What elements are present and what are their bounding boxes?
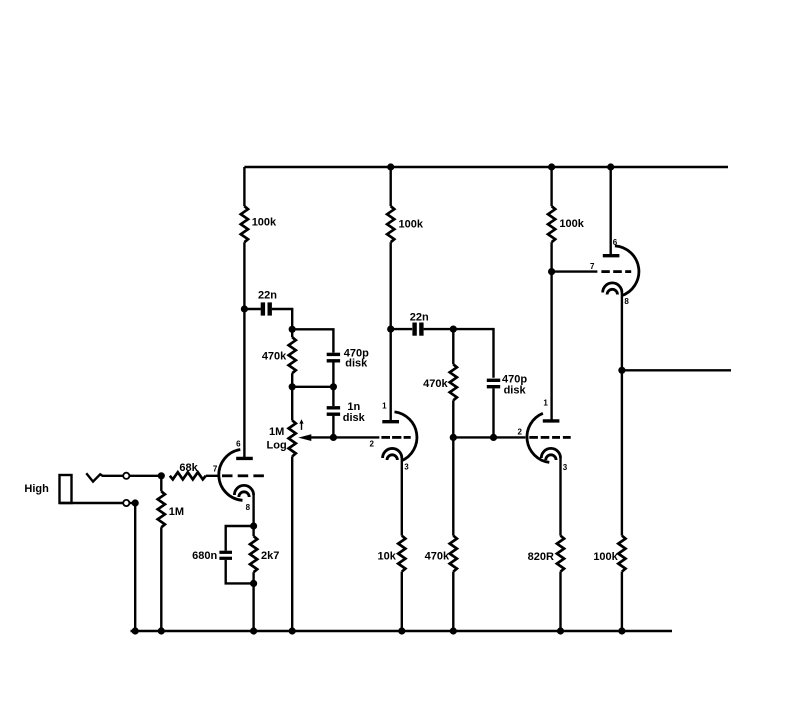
pin 8 label (V4) bbox=[624, 297, 629, 306]
wire: R9 bottom to V3 plate (pin 1) bbox=[550, 242, 552, 421]
svg-text:470k: 470k bbox=[262, 351, 287, 363]
svg-text:disk: disk bbox=[343, 412, 366, 424]
pin 2 label (V3) bbox=[517, 428, 522, 437]
capacitor C3 1n disk bbox=[327, 387, 366, 438]
svg-text:22n: 22n bbox=[410, 312, 429, 324]
svg-text:2: 2 bbox=[517, 428, 522, 437]
wire: tip terminal to grid node bbox=[130, 475, 162, 477]
node: ground junction (R12) bbox=[618, 627, 625, 634]
triode V2 cathode (pin 3) bbox=[383, 448, 402, 460]
svg-text:1n: 1n bbox=[347, 401, 360, 413]
node: C5 bottom junction bbox=[490, 434, 497, 441]
wire: C6 bottom to R7 bbox=[226, 560, 254, 584]
svg-text:470k: 470k bbox=[425, 550, 450, 562]
capacitor C2 470p disk bbox=[327, 348, 369, 370]
node: rail junction to V4 plate bbox=[607, 163, 614, 170]
svg-text:7: 7 bbox=[213, 465, 218, 474]
pin 7 label (V4) bbox=[590, 262, 595, 271]
resistor R12 100k (V4 cathode load) bbox=[593, 536, 625, 631]
wire: B+ supply rail (top) bbox=[244, 166, 728, 168]
pin 1 label (V2) bbox=[382, 402, 387, 411]
svg-text:820R: 820R bbox=[528, 551, 554, 563]
triode V2 grid (pin 2, dashed) bbox=[381, 436, 410, 439]
resistor R6 470k bbox=[423, 329, 457, 437]
capacitor C6 680n bbox=[192, 550, 232, 562]
triode V3 grid (pin 2, dashed) bbox=[529, 436, 570, 439]
wire: junction to V3 grid bbox=[494, 436, 526, 438]
node: C1 / R3 / C2 junction bbox=[289, 326, 296, 333]
resistor R9 100k (V3 plate load) bbox=[548, 206, 585, 242]
wire: junction to C5 branch corner bbox=[453, 329, 493, 378]
wire: V2 cathode lead down to R10 bbox=[401, 458, 403, 536]
svg-text:3: 3 bbox=[404, 462, 409, 471]
triode V1 plate bar (pin 6) bbox=[236, 457, 253, 460]
svg-text:1M: 1M bbox=[269, 426, 284, 438]
potentiometer VR1 1M Log bbox=[267, 387, 334, 631]
node: ground junction (R11) bbox=[557, 627, 564, 634]
node: ground junction (VR1) bbox=[289, 627, 296, 634]
wire: C5 bottom lead bbox=[492, 388, 494, 437]
wire: cathode network to ground rail bbox=[252, 583, 254, 631]
wire: output line to right bbox=[622, 369, 731, 371]
wire: junction to C1 left plate bbox=[244, 308, 260, 310]
pin 2 label (V2) bbox=[369, 440, 374, 449]
wire: V4 cathode lead down bbox=[621, 293, 623, 536]
node: rail junction to R9 bbox=[548, 163, 555, 170]
wire: junction to C4 left plate bbox=[391, 328, 413, 330]
pin 7 label (V1) bbox=[213, 465, 218, 474]
pin 3 label (V2) bbox=[404, 462, 409, 471]
wire: C4 right plate to R6 top bbox=[424, 328, 454, 330]
wire: rail corner down to R2 top bbox=[243, 167, 245, 206]
resistor R5 100k (V2 plate load) bbox=[387, 206, 424, 242]
node: rail junction to R5 bbox=[387, 163, 394, 170]
triode V2 plate bar (pin 1) bbox=[382, 420, 399, 423]
svg-text:100k: 100k bbox=[559, 218, 584, 230]
wire: C2 bottom lead bbox=[332, 362, 334, 387]
svg-text:6: 6 bbox=[236, 440, 241, 449]
wire: cathode junction to C6 top bbox=[226, 526, 254, 551]
wire: R3 bottom to C2 bottom bbox=[292, 386, 333, 388]
svg-text:disk: disk bbox=[504, 385, 527, 397]
svg-text:7: 7 bbox=[590, 262, 595, 271]
pin 8 label (V1) bbox=[246, 503, 251, 512]
triode V3 plate bar (pin 1) bbox=[543, 419, 560, 422]
wire: sleeve terminal to dot bbox=[130, 502, 136, 504]
resistor R3 470k (treble peaking) bbox=[262, 329, 296, 387]
triode V4 plate bar (pin 6) bbox=[603, 254, 620, 257]
wire: R2 bottom to V1 plate (pin 6) bbox=[243, 242, 245, 458]
node: ground junction (R8) bbox=[450, 627, 457, 634]
node: ground junction (R10) bbox=[398, 627, 405, 634]
node: V2 plate / C4 tap junction bbox=[387, 326, 394, 333]
svg-text:8: 8 bbox=[246, 503, 251, 512]
node: output tap junction bbox=[618, 367, 625, 374]
triode V1 envelope bbox=[219, 450, 243, 501]
wire: rail to R9 top bbox=[550, 167, 552, 206]
node: cathode / C6 top junction bbox=[250, 522, 257, 529]
svg-text:100k: 100k bbox=[399, 218, 424, 230]
wire: R6 bottom to C5 bottom bbox=[453, 436, 493, 438]
pin 1 label (V3) bbox=[543, 399, 548, 408]
jack sleeve terminal bbox=[123, 500, 129, 506]
triode V4 grid (pin 7, dashed) bbox=[601, 270, 631, 273]
resistor R8 470k (V3 grid leak) bbox=[425, 437, 457, 631]
svg-text:2k7: 2k7 bbox=[261, 550, 279, 562]
resistor R10 10k (V2 cathode) bbox=[378, 536, 406, 631]
wire: V3 cathode lead down to R11 bbox=[559, 458, 561, 536]
node: pot wiper / C3 junction bbox=[330, 434, 337, 441]
svg-text:6: 6 bbox=[613, 238, 618, 247]
resistor R2 100k (V1 plate load) bbox=[241, 206, 277, 242]
capacitor C4 22n bbox=[410, 312, 429, 336]
pin 6 label (V1) bbox=[236, 440, 241, 449]
node: R3 bottom junction bbox=[289, 383, 296, 390]
svg-text:1: 1 bbox=[382, 402, 387, 411]
wire: junction to C2 branch corner bbox=[292, 329, 333, 352]
node: R7 bottom junction bbox=[250, 580, 257, 587]
svg-text:22n: 22n bbox=[258, 289, 277, 301]
triode V4 cathode (pin 8) bbox=[603, 283, 622, 295]
wire: junction to V4 grid (pin 7) bbox=[552, 270, 598, 272]
capacitor C1 22n bbox=[258, 289, 277, 315]
node: ground junction (jack sleeve) bbox=[132, 627, 139, 634]
svg-text:100k: 100k bbox=[252, 217, 277, 229]
wire: ground rail (bottom) bbox=[131, 630, 673, 632]
wire: V1 cathode lead down bbox=[252, 495, 254, 526]
node: ground junction (V1 cathode net) bbox=[250, 627, 257, 634]
triode V4 envelope bbox=[615, 246, 639, 296]
svg-text:680n: 680n bbox=[192, 550, 217, 562]
wire: wiper bus to V2 grid bbox=[333, 436, 379, 438]
node: sleeve to ground dot bbox=[132, 499, 139, 506]
triode V1 grid (pin 7, dashed) bbox=[222, 474, 264, 477]
input jack J1 bbox=[60, 473, 123, 503]
node: C2 bottom junction bbox=[330, 383, 337, 390]
wire: sleeve down to ground rail bbox=[134, 503, 136, 631]
node: R6 bottom junction bbox=[450, 434, 457, 441]
wire: R5 bottom to V2 plate (pin 1) bbox=[390, 242, 392, 422]
triode V3 envelope bbox=[527, 413, 549, 462]
wire: rail to R5 top bbox=[390, 167, 392, 206]
jack tip terminal bbox=[123, 473, 129, 479]
svg-text:3: 3 bbox=[563, 463, 568, 472]
wire: C1 right plate to pot column bbox=[272, 309, 292, 329]
resistor R4 68k (grid stopper) bbox=[170, 462, 219, 480]
triode V2 envelope bbox=[395, 412, 417, 461]
triode V1 cathode (pin 8) bbox=[234, 485, 253, 497]
svg-text:470k: 470k bbox=[423, 378, 448, 390]
svg-text:1M: 1M bbox=[169, 506, 184, 518]
svg-text:10k: 10k bbox=[378, 550, 397, 562]
node: ground junction (R1) bbox=[158, 627, 165, 634]
resistor R1 1M (input grid leak) bbox=[158, 476, 184, 631]
node: grid input junction bbox=[158, 472, 165, 479]
svg-text:Log: Log bbox=[267, 440, 287, 452]
svg-text:High: High bbox=[24, 483, 49, 495]
svg-text:68k: 68k bbox=[179, 462, 198, 474]
resistor R11 820R (V3 cathode) bbox=[528, 536, 564, 631]
triode V3 cathode (pin 3) bbox=[541, 448, 560, 460]
node: V1 plate / C1 tap junction bbox=[241, 305, 248, 312]
node: C4 / R6 / C5 junction bbox=[450, 326, 457, 333]
svg-text:8: 8 bbox=[624, 297, 629, 306]
wire: rail to V4 plate (pin 6) bbox=[610, 167, 612, 256]
node: V3 plate / V4 grid junction bbox=[548, 268, 555, 275]
svg-text:disk: disk bbox=[345, 358, 368, 370]
svg-text:2: 2 bbox=[369, 440, 374, 449]
label: input "High" bbox=[24, 483, 49, 495]
pin 6 label (V4) bbox=[613, 238, 618, 247]
capacitor C5 470p disk bbox=[487, 374, 528, 397]
svg-text:100k: 100k bbox=[593, 551, 618, 563]
pin 3 label (V3) bbox=[563, 463, 568, 472]
resistor R7 2k7 (V1 cathode) bbox=[250, 526, 279, 583]
svg-text:1: 1 bbox=[543, 399, 548, 408]
